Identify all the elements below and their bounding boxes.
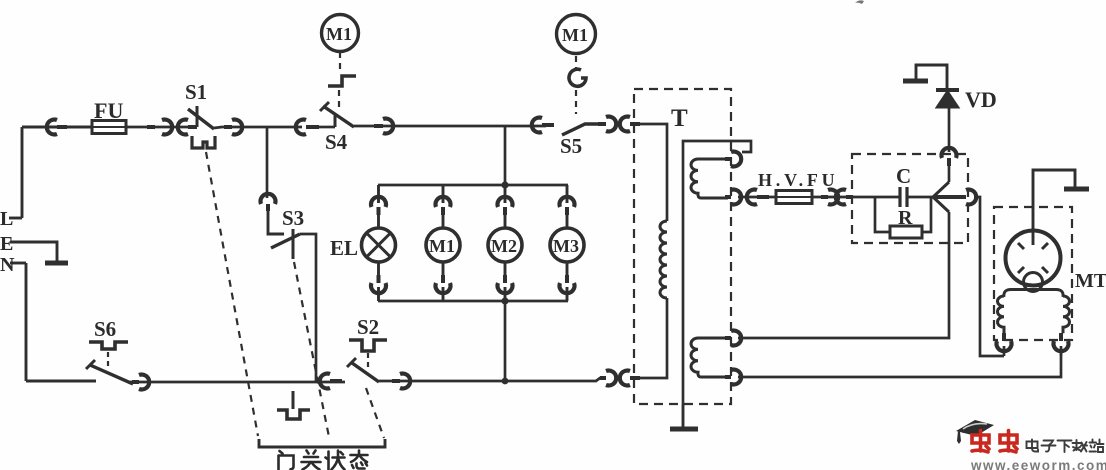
lamp EL branch wires [377, 185, 380, 301]
connector (C-box right edge) [961, 190, 976, 205]
wire FU to S1 [126, 126, 190, 129]
transformer HV secondary winding [691, 159, 728, 198]
wire C to node [907, 196, 933, 199]
switch S6 [86, 360, 133, 384]
wire node up to connector [948, 166, 951, 182]
connector pair J6 (left of S5) [532, 118, 554, 133]
node HV junction [933, 182, 963, 212]
connector pair J8 (H.V.FU left) [747, 190, 769, 205]
wire VD to chassis [916, 65, 947, 89]
magnetron anode vanes [1018, 243, 1048, 273]
ground (E chassis bar) [45, 261, 68, 266]
wire S3 output to bottom bus [300, 234, 316, 381]
wire N riser to bottom bus [25, 263, 28, 381]
switch S4 [320, 102, 354, 127]
resistor R [890, 226, 922, 238]
connector pair J2 [147, 120, 197, 135]
connector J4 (left of S4) [296, 120, 319, 135]
ground (VD chassis bar) [903, 79, 928, 84]
wire S4 to S5 [354, 125, 546, 128]
wire top bus L to FU [22, 126, 92, 129]
connector (M1 top) [436, 197, 451, 215]
mechanical dashed link S1 to door [206, 152, 258, 436]
motor M1 (turntable, above S4) [322, 15, 359, 52]
resistor R leads [875, 197, 931, 232]
mechanical dashed link S3 to door [294, 262, 329, 437]
magnetron heater frame [1004, 290, 1063, 298]
junction dot bottom rail [501, 297, 508, 304]
junction dot top rail [501, 181, 508, 188]
wire HV secondary to H.V.FU [738, 196, 776, 199]
node E [10, 242, 57, 261]
connector pair J9 (H.V.FU right, C-box edge) [821, 190, 853, 205]
wire filament top lead (T to riser) [738, 337, 949, 338]
watermark 虫虫 (red) [972, 431, 1017, 453]
transformer filament winding [691, 338, 728, 377]
wire T primary bottom lead [640, 298, 667, 378]
connector (MT heater right) [1054, 333, 1069, 351]
node L [9, 217, 22, 220]
wire S1 to S3 tee [214, 127, 302, 128]
transformer primary winding [660, 221, 667, 298]
connector pair J5 (right of S4) [374, 119, 393, 134]
mechanical dashed link S2 to door [366, 388, 384, 438]
connector (filament winding bottom, T edge) [725, 370, 741, 385]
magnetron anode wire [1033, 170, 1075, 245]
label 门关状态 (door closed state) [279, 451, 368, 470]
magnetron heater left coil [998, 296, 1004, 333]
stray mark top edge [855, 0, 864, 4]
lamp EL [362, 228, 396, 262]
watermark logo [956, 420, 1106, 470]
wire J4 to S4 [319, 126, 335, 129]
capacitor/resistor dashed box [852, 154, 968, 243]
mechanical dashed link S6 [107, 352, 109, 368]
svg-text:M1: M1 [562, 25, 588, 45]
svg-text:FU: FU [94, 98, 123, 123]
svg-text:C: C [896, 164, 911, 188]
bottom bus N to S6 [26, 380, 96, 383]
watermark graduation cap [956, 420, 994, 436]
wire S2 to T box [379, 378, 602, 381]
door actuator symbol S2 [349, 340, 387, 351]
mechanical dashed link crank to S4 blade [338, 90, 340, 111]
connector (MT heater left) [997, 333, 1012, 351]
switch S5 [562, 124, 602, 135]
connector J3 (right of S1) [224, 120, 242, 135]
node tee S3 branch [266, 127, 269, 198]
ground (MT chassis bar) [1064, 187, 1089, 192]
capacitor C [900, 187, 907, 207]
lamp bank top rail [378, 184, 568, 187]
connector pair (left of S2) [320, 374, 342, 389]
motor M3 [550, 228, 584, 262]
connector pair J10 (T box input, bottom) [600, 371, 640, 386]
connector (M3 top) [560, 197, 575, 215]
connector (EL top) [371, 197, 386, 215]
mechanical crank symbol above S4 [328, 76, 356, 86]
connector (right of S2) [392, 374, 410, 389]
svg-text:www.eeworm.com: www.eeworm.com [970, 458, 1106, 470]
wire filament bottom lead (T to MT) [738, 349, 1061, 377]
connector (M3 bottom) [560, 275, 575, 293]
motor M3 branch wires [566, 185, 569, 301]
svg-text:S2: S2 [357, 315, 379, 339]
motor M1 branch wires [442, 185, 445, 301]
junction dot feeder/bus [502, 378, 509, 385]
wire bank feeder to bottom bus [504, 301, 507, 381]
switch S1 [188, 106, 214, 129]
connector (HV winding top, T edge) [725, 152, 741, 167]
switch S3 [271, 229, 300, 259]
door hook symbol [277, 391, 310, 419]
wire MT heater right down [1060, 346, 1063, 356]
motor M2 [488, 228, 522, 262]
motor M1 (fan) [426, 228, 460, 262]
magnetron tube circle [1006, 231, 1061, 286]
cam symbol above S5 [569, 69, 586, 86]
connector (filament winding top, T edge) [725, 331, 741, 346]
wire L riser to top bus [21, 127, 24, 218]
svg-text:VD: VD [965, 87, 997, 112]
motor M1 (timer, above S5) [557, 15, 596, 54]
transformer T dashed box [634, 89, 731, 404]
svg-text:M1: M1 [326, 24, 352, 44]
connector (right of S6) [132, 375, 149, 390]
svg-text:N: N [0, 254, 15, 276]
wire T primary top lead [640, 124, 667, 221]
svg-text:M2: M2 [491, 236, 517, 256]
svg-text:EL: EL [330, 236, 358, 260]
wire S6 to S2 [129, 381, 345, 384]
svg-text:S6: S6 [94, 317, 116, 341]
connector (EL bottom) [371, 275, 386, 293]
mechanical dashed link S2 [367, 353, 369, 369]
connector (S3 top) [261, 194, 276, 211]
connector (C-box top edge to VD) [942, 148, 957, 166]
ground (transformer core) [670, 404, 698, 429]
switch S3 branch [268, 211, 284, 234]
mechanical dashed link M1 to cam [575, 56, 577, 70]
svg-text:E: E [0, 233, 13, 255]
wire H.V.FU to C [812, 196, 900, 199]
door actuator symbol S6 [89, 342, 128, 349]
door state bracket [259, 439, 385, 447]
node tee lamp-bank feeder [504, 126, 507, 185]
connector (M1 bottom) [436, 275, 451, 293]
svg-text:R: R [898, 207, 913, 229]
magnetron heater right coil [1063, 296, 1070, 333]
svg-text:M3: M3 [553, 236, 579, 256]
wire HV common (core) riser [683, 141, 751, 404]
watermark 电子下载站 [1027, 440, 1104, 453]
svg-text:H.V.FU: H.V.FU [758, 170, 838, 190]
svg-text:S4: S4 [325, 130, 348, 154]
connector pair J7 (T box input, top) [598, 116, 640, 131]
connector (HV winding bottom, T edge) [725, 190, 741, 205]
wire connector up to VD [948, 107, 951, 152]
svg-text:S5: S5 [560, 134, 582, 158]
node N [10, 262, 26, 265]
svg-text:T: T [671, 105, 688, 132]
diode VD [936, 90, 959, 107]
svg-text:L: L [0, 208, 13, 230]
mechanical dashed link M1 to S4 [339, 52, 341, 71]
wire node down to filament bus [948, 212, 951, 337]
fuse FU [92, 121, 126, 134]
connector (M2 top) [498, 197, 513, 215]
svg-text:S3: S3 [282, 206, 304, 230]
mechanical dashed link cam to S5 [575, 90, 577, 114]
wire C-box output down [974, 197, 1004, 356]
connector (M2 bottom) [498, 275, 513, 293]
door latch bracket under S1 [192, 136, 215, 148]
lamp bank bottom rail [378, 300, 568, 303]
magnetron cathode dome [1024, 273, 1043, 292]
fuse H.V.FU [776, 191, 812, 204]
svg-text:M1: M1 [429, 236, 455, 256]
motor M2 branch wires [504, 185, 507, 301]
svg-text:MT: MT [1075, 270, 1106, 292]
connector J1 (FU left) [47, 120, 67, 135]
wire MT heater left down [1003, 346, 1006, 356]
svg-text:S1: S1 [185, 80, 207, 104]
magnetron MT dashed box [994, 207, 1072, 340]
switch S2 [347, 358, 379, 382]
